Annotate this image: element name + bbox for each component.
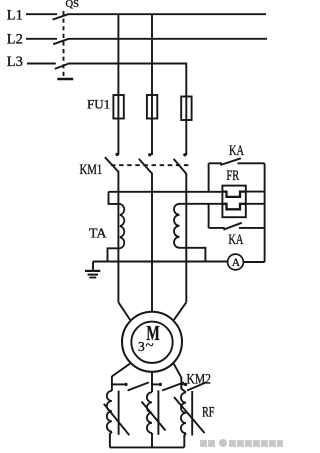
resistor RF3 core line [191, 391, 193, 436]
switch QS pole 3 blade [55, 64, 69, 69]
wire rotor left vertical [111, 376, 113, 385]
svg-text:QS: QS [66, 0, 80, 10]
wire L3 to right corner [69, 64, 187, 98]
svg-text:KM2: KM2 [187, 370, 211, 387]
ground bar 1 [85, 270, 100, 272]
switch QS pole 2 blade [53, 39, 68, 44]
switch QS pole 1 blade [53, 14, 69, 19]
resistor RF2 bottom wire [151, 433, 153, 447]
contactor KM1 pole 2 blade [139, 159, 152, 174]
motor M outer circle [122, 312, 182, 372]
contactor KM1 linkage dashed line [111, 164, 192, 166]
wire KA branch vertical upper [208, 163, 210, 192]
relay contact KA top: right wire [238, 162, 265, 164]
thermal relay FR heater box [222, 186, 245, 218]
contactor KM2 pole 2 contact dot [159, 383, 162, 386]
current transformer TA1 secondary bracket bottom [108, 248, 121, 261]
wire secondary mid (node 2) [180, 203, 223, 205]
wire ammeter to right vertical [243, 261, 264, 263]
contactor KM2 pole 3 blade [187, 382, 206, 390]
resistor RF1 bottom wire [110, 432, 112, 448]
wire FR top to right vertical [246, 191, 265, 193]
wire phase B KM1 to motor [151, 173, 153, 312]
resistor RF3 top wire [181, 384, 186, 392]
contactor KM2 pole 1 stub [112, 383, 124, 385]
wire L3 stub [27, 63, 56, 65]
wire FR bottom to right vertical [246, 203, 265, 205]
wire L1 stub [26, 13, 57, 15]
svg-text:A: A [232, 257, 241, 269]
wire drop phase A [117, 14, 119, 154]
current transformer TA1 secondary coil [120, 204, 124, 248]
svg-text:~: ~ [146, 338, 154, 354]
ground stub [92, 262, 94, 271]
resistor RF2 top wire [151, 384, 153, 392]
ground bar 3 [89, 277, 96, 279]
svg-text:KA: KA [229, 142, 245, 158]
watermark 头条@电气自动化应用 [200, 439, 281, 448]
wire rotor mid vertical [151, 372, 153, 385]
wire phase C KM1 to motor [185, 173, 187, 302]
contactor KM2 pole 1 blade [128, 382, 149, 390]
wire drop phase B [151, 14, 153, 155]
svg-text:3: 3 [138, 339, 145, 354]
resistor RF1 top wire [111, 384, 113, 390]
svg-text:RF: RF [202, 404, 214, 420]
svg-text:L3: L3 [7, 54, 23, 70]
svg-text:FR: FR [226, 168, 239, 184]
resistor RF3 slider diagonal [174, 397, 205, 433]
fuse FU1 pole 3 [181, 97, 191, 121]
resistor RF1 core line [118, 391, 120, 435]
wire rotor left diagonal [112, 363, 131, 376]
current transformer TA2 secondary lead [180, 248, 206, 262]
svg-text:KA: KA [228, 231, 244, 247]
svg-text:L2: L2 [7, 31, 23, 47]
wire right vertical [264, 163, 266, 262]
motor M inner circle [131, 322, 172, 363]
contactor KM1 pole 3 blade [174, 159, 187, 174]
wire L2 bus [69, 38, 268, 40]
wire rotor common bus [110, 446, 184, 448]
wire secondary top (node 1) [109, 191, 223, 193]
resistor RF1 slider diagonal [104, 404, 130, 435]
relay contact KA bottom: blade [223, 223, 241, 230]
switch QS linkage dashed line [63, 11, 65, 77]
wire phase A KM1 to motor [117, 171, 119, 302]
contactor KM2 pole 3 stub [181, 383, 183, 385]
relay contact KA bottom: right wire [239, 227, 265, 229]
resistor RF3 coil [181, 393, 186, 434]
wire KA branch vertical lower [208, 204, 210, 228]
resistor RF2 core line [157, 390, 159, 434]
resistor RF2 coil [147, 392, 152, 433]
wire measurement bus [93, 261, 228, 263]
contactor KM2 pole 3 contact dot [184, 383, 187, 386]
wire motor lead right diagonal [173, 302, 186, 320]
ammeter A circle [228, 254, 244, 270]
svg-text:KM1: KM1 [80, 160, 103, 177]
contactor KM1 pole 2 contact dot [148, 153, 151, 156]
contactor KM2 pole 2 stub [152, 383, 159, 385]
contactor KM1 pole 1 contact dot [116, 153, 119, 156]
wire drop phase C [185, 97, 187, 155]
svg-text:FU1: FU1 [87, 96, 110, 111]
fuse FU1 pole 1 [113, 95, 123, 119]
contactor KM1 pole 1 blade [105, 157, 118, 171]
switch QS handle bar [57, 78, 73, 81]
wire L2 stub [26, 38, 57, 40]
contactor KM2 pole 2 blade [162, 382, 184, 390]
current transformer TA2 secondary coil [174, 204, 180, 248]
wire motor lead left diagonal [118, 302, 130, 320]
resistor RF1 coil [107, 391, 112, 432]
thermal relay FR heater element top [222, 192, 245, 197]
ground bar 2 [88, 274, 98, 276]
relay contact KA bottom: left wire [209, 227, 225, 229]
svg-text:TA: TA [89, 226, 107, 241]
relay contact KA top: left wire [209, 162, 222, 164]
svg-text:L1: L1 [7, 8, 23, 24]
wire rotor right diagonal [173, 363, 181, 377]
thermal relay FR heater element bottom [222, 204, 245, 210]
relay contact KA top: blade [220, 158, 241, 165]
resistor RF3 bottom wire [184, 433, 186, 447]
resistor RF2 slider diagonal [142, 402, 166, 431]
wire L1 bus [68, 13, 266, 15]
contactor KM2 pole 1 contact dot [124, 383, 127, 386]
wire rotor right vertical [180, 377, 182, 385]
contactor KM1 pole 3 contact dot [183, 153, 186, 156]
current transformer TA1 secondary bracket top [109, 192, 121, 204]
fuse FU1 pole 2 [147, 95, 157, 119]
